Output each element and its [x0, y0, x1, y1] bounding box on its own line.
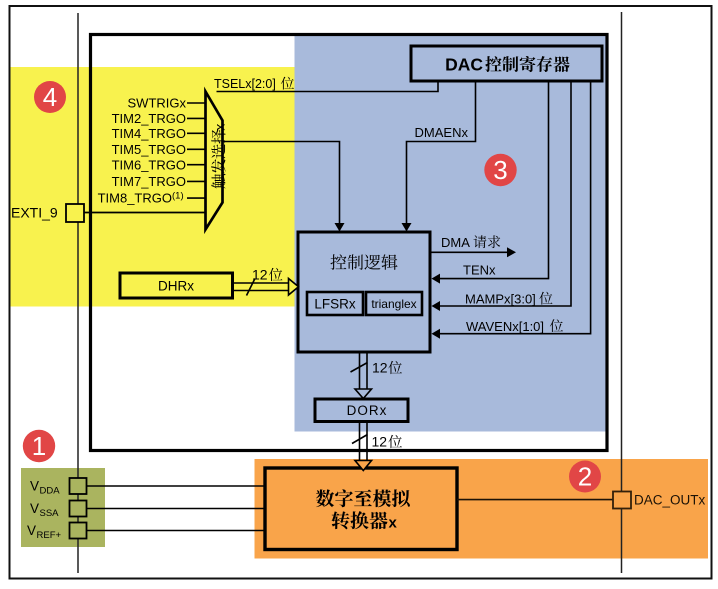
svg-text:TIM8_TRGO: TIM8_TRGO	[98, 191, 172, 206]
wire MAMPx[3:0] from register to control logic	[440, 81, 571, 306]
badge 4	[34, 81, 66, 113]
svg-text:3: 3	[493, 155, 507, 185]
wire TENx from register to control logic	[440, 81, 549, 279]
left chip boundary line	[77, 13, 79, 573]
svg-text:V: V	[30, 479, 39, 494]
svg-text:SWTRIGx: SWTRIGx	[128, 96, 187, 111]
svg-text:trianglex: trianglex	[371, 297, 416, 311]
svg-text:1: 1	[32, 431, 46, 461]
wire DMAENx from register to control logic	[407, 81, 476, 225]
svg-text:DAC: DAC	[445, 55, 483, 75]
inner DAC block frame	[91, 35, 608, 451]
badge 1	[23, 430, 55, 462]
svg-text:TSELx[2:0]: TSELx[2:0]	[214, 77, 276, 91]
wire VSSA to DAC converter	[87, 508, 265, 510]
wire DMA request output	[430, 251, 508, 253]
wire WAVENx[1:0] from register to control logic	[440, 81, 591, 334]
trigger input TIM4_TRGO	[187, 132, 205, 134]
svg-text:WAVENx[1:0]: WAVENx[1:0]	[466, 319, 544, 334]
svg-text:DHRx: DHRx	[158, 279, 194, 294]
right chip boundary line	[621, 12, 623, 573]
svg-text:12: 12	[372, 434, 388, 450]
svg-text:x: x	[212, 124, 227, 131]
svg-text:TIM5_TRGO: TIM5_TRGO	[112, 142, 186, 157]
bus arrow control logic to DORx (12-bit)	[351, 352, 372, 399]
svg-text:V: V	[27, 523, 36, 538]
trigger input TIM6_TRGO	[187, 164, 205, 166]
region 1: supply green zone	[21, 468, 105, 547]
svg-text:SSA: SSA	[40, 508, 60, 519]
svg-text:12: 12	[252, 267, 268, 283]
badge 3	[484, 154, 516, 186]
wire DAC output to DAC_OUTx pin	[457, 499, 613, 501]
region 3: digital interface blue zone	[295, 36, 606, 432]
pin square VSSA	[70, 501, 87, 517]
DHRx register box	[120, 273, 233, 298]
svg-text:TIM7_TRGO: TIM7_TRGO	[112, 174, 186, 189]
trigger input TIM7_TRGO	[187, 180, 205, 182]
svg-text:LFSRx: LFSRx	[314, 296, 356, 311]
region 4: trigger-selection yellow zone	[11, 67, 295, 307]
wire VDDA to DAC converter	[87, 485, 265, 487]
svg-text:DAC_OUTx: DAC_OUTx	[634, 493, 706, 508]
LFSRx box	[307, 292, 363, 315]
trigger input TIM8_TRGO(1)	[187, 197, 205, 199]
region 2: analog output orange zone	[255, 459, 709, 559]
svg-text:V: V	[30, 501, 39, 516]
svg-text:DDA: DDA	[40, 486, 61, 497]
mux vertical label 触发选择x	[211, 124, 227, 189]
mux (trigger selector) trapezoid	[206, 92, 223, 230]
wire mux output to control logic	[223, 142, 340, 225]
svg-text:DMAENx: DMAENx	[415, 125, 469, 140]
svg-text:DORx: DORx	[347, 403, 388, 418]
label 控制逻辑	[330, 254, 346, 270]
svg-text:DMA: DMA	[441, 235, 470, 250]
control logic box	[298, 232, 430, 352]
badge 2	[569, 461, 601, 493]
svg-text:TIM2_TRGO: TIM2_TRGO	[112, 111, 186, 126]
trigger input SWTRIGx	[187, 102, 205, 104]
svg-text:2: 2	[578, 462, 592, 492]
svg-text:4: 4	[43, 82, 57, 112]
DORx register box	[315, 399, 408, 422]
wire VREF+ to DAC converter	[87, 530, 265, 532]
wire EXTI_9 to mux	[84, 212, 206, 214]
trigger input TIM2_TRGO	[187, 117, 205, 119]
trigger input TIM5_TRGO	[187, 148, 205, 150]
svg-text:REF+: REF+	[37, 530, 62, 541]
DAC converter box 数字至模拟转换器x	[265, 468, 457, 550]
pin square VREF+	[70, 523, 87, 539]
svg-text:EXTI_9: EXTI_9	[11, 205, 58, 221]
wire TSELx from DAC control register to mux	[217, 81, 439, 92]
svg-text:TENx: TENx	[463, 263, 496, 278]
DAC control register box	[411, 46, 602, 81]
pin square VDDA	[70, 478, 87, 494]
svg-text:TIM4_TRGO: TIM4_TRGO	[112, 126, 186, 141]
bus arrow DORx to DAC converter (12-bit)	[352, 422, 368, 461]
svg-text:12: 12	[372, 360, 388, 376]
svg-text:(1): (1)	[172, 191, 184, 202]
svg-text:x: x	[389, 515, 398, 532]
svg-text:MAMPx[3:0]: MAMPx[3:0]	[465, 292, 536, 307]
EXTI_9 pin square	[66, 204, 84, 222]
trianglex box	[366, 292, 422, 315]
svg-text:TIM6_TRGO: TIM6_TRGO	[112, 157, 186, 172]
DAC_OUTx pin square	[613, 492, 631, 509]
arrowhead of DOR bus entering DAC box	[355, 461, 372, 471]
bus arrow DHRx to control logic (12-bit)	[233, 279, 299, 296]
